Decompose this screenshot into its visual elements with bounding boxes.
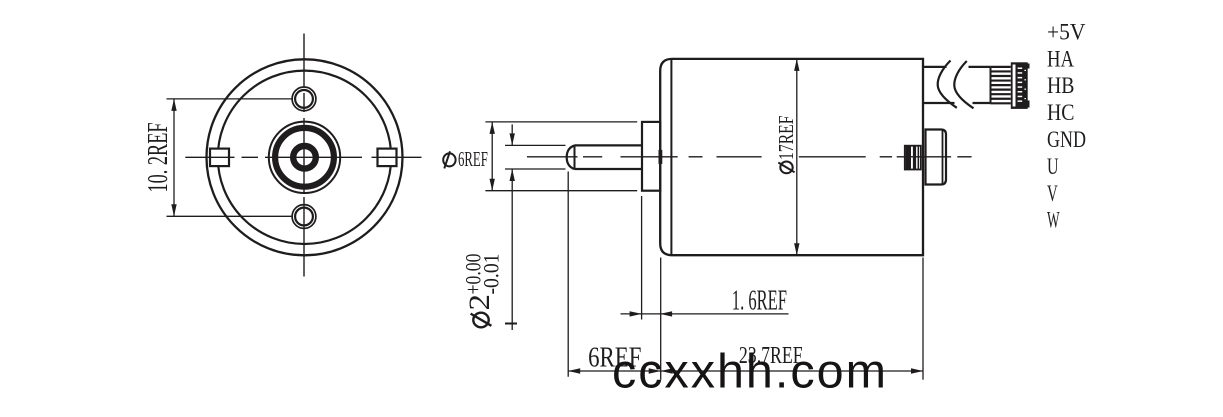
- dim 1.6REF extension left: [641, 196, 643, 320]
- dim phi2 line upper: [511, 124, 513, 145]
- cable top line: [923, 66, 990, 68]
- shaft bottom line: [575, 168, 643, 170]
- motor body outline: [660, 59, 923, 255]
- rear terminal pin: [905, 146, 921, 170]
- dim phi6REF line: [491, 122, 493, 191]
- shaft top line: [575, 144, 643, 146]
- svg-text:ccxxhh.com: ccxxhh.com: [612, 345, 886, 399]
- arrow down 10.2REF: [171, 204, 176, 216]
- svg-text:17REF: 17REF: [774, 115, 798, 160]
- dimension 10.2REF extension line bottom: [167, 215, 294, 217]
- dim phi6REF extension top: [485, 121, 637, 123]
- left slot tab: [210, 149, 229, 167]
- cable break curve 1: [938, 61, 957, 108]
- extension line shaft tip: [567, 172, 569, 377]
- arrow up to shaft phi2: [510, 169, 515, 181]
- front view horizontal centerline: [185, 156, 421, 158]
- svg-text:U: U: [1047, 154, 1059, 180]
- right slot tab: [378, 149, 397, 167]
- arrow down phi6: [490, 179, 495, 191]
- tick near phi2 text: [505, 323, 517, 325]
- extension line body front face: [660, 258, 662, 380]
- dim phi17REF line: [796, 59, 798, 255]
- svg-text:10. 2REF: 10. 2REF: [142, 123, 174, 193]
- arrow left 23.7REF: [661, 368, 673, 373]
- dimension 10.2REF line: [173, 99, 175, 216]
- center boss thin circle: [269, 122, 340, 193]
- shaft tip chord: [574, 145, 576, 169]
- side view horizontal centerline: [527, 156, 972, 158]
- arrow right 23.7REF: [911, 368, 923, 373]
- bottom mounting hole: [292, 205, 316, 229]
- dimension 10.2REF extension line top: [167, 98, 294, 100]
- arrow down to shaft phi2: [510, 133, 515, 145]
- wire ribbon: [990, 67, 1011, 103]
- dim 23.7REF line: [661, 370, 923, 372]
- svg-text:HC: HC: [1047, 100, 1075, 126]
- connector block: [1011, 62, 1030, 109]
- center bearing thick ring: [293, 146, 316, 169]
- front view outer circle: [207, 59, 403, 255]
- body seam line: [670, 59, 672, 255]
- dim phi2 line lower: [511, 169, 513, 330]
- text phi17REF: [774, 115, 798, 173]
- wire ribbon start edge: [990, 67, 992, 103]
- shaft rounded tip: [567, 145, 575, 169]
- svg-text:HB: HB: [1047, 73, 1075, 99]
- arrow up phi17: [794, 59, 799, 71]
- extension line body rear: [922, 258, 924, 380]
- cable break curve 2: [954, 61, 973, 108]
- svg-text:V: V: [1047, 181, 1058, 207]
- shaft hole tick at face: [659, 150, 663, 164]
- arrow left 1.6REF: [660, 311, 672, 316]
- arrow right 6REF: [649, 368, 661, 373]
- text phi2: [463, 294, 496, 327]
- text phi6REF: [443, 151, 455, 168]
- front view inner circle: [218, 71, 391, 244]
- svg-text:1. 6REF: 1. 6REF: [732, 285, 787, 317]
- svg-text:W: W: [1047, 208, 1060, 234]
- center boss thick ring: [275, 128, 334, 187]
- dim phi2 extension top: [505, 144, 566, 146]
- svg-text:+5V: +5V: [1047, 19, 1086, 45]
- front bearing boss: [642, 122, 660, 191]
- arrow right 1.6REF: [630, 311, 642, 316]
- arrow left 6REF: [568, 368, 580, 373]
- rear boss: [926, 130, 947, 185]
- dim 1.6REF left leader: [621, 313, 789, 315]
- arrow up phi6: [490, 122, 495, 134]
- svg-text:GND: GND: [1047, 127, 1086, 153]
- svg-text:2: 2: [463, 294, 496, 311]
- front view vertical centerline: [303, 34, 305, 277]
- svg-text:-0.01: -0.01: [479, 254, 504, 295]
- dim phi2 extension bottom: [505, 168, 566, 170]
- arrow down phi17: [794, 243, 799, 255]
- top mounting hole: [292, 87, 316, 111]
- rear boss seam: [942, 130, 944, 185]
- dim phi6REF extension bottom: [485, 190, 637, 192]
- arrow up 10.2REF: [171, 99, 176, 111]
- svg-text:HA: HA: [1047, 46, 1074, 72]
- dim 6REF line: [568, 370, 661, 372]
- svg-text:6REF: 6REF: [458, 147, 488, 171]
- cable bottom line: [923, 102, 990, 104]
